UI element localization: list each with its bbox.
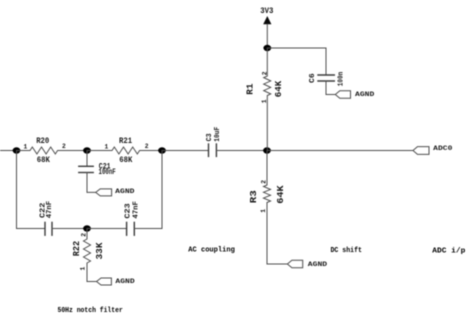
svg-text:AC coupling: AC coupling xyxy=(188,246,235,254)
node junction R20/R21/C21 xyxy=(83,147,91,153)
capacitor C23 xyxy=(127,222,135,235)
svg-text:C23: C23 xyxy=(124,203,132,219)
node junction center xyxy=(263,147,271,153)
svg-text:68K: 68K xyxy=(119,156,132,165)
node junction R1/C6 xyxy=(263,45,271,51)
wire node to C23 xyxy=(87,228,127,230)
wire R21 to C3 xyxy=(162,150,209,152)
wire C21 down xyxy=(86,151,88,167)
wire notch right branch up xyxy=(161,151,163,229)
svg-text:3V3: 3V3 xyxy=(260,7,273,16)
svg-text:68K: 68K xyxy=(37,156,50,165)
svg-text:33K: 33K xyxy=(95,242,105,260)
node junction C22/C23/R22 xyxy=(83,225,91,231)
svg-text:2: 2 xyxy=(80,233,87,237)
wire R22 to ground tag xyxy=(87,281,97,283)
svg-text:R22: R22 xyxy=(72,241,82,257)
svg-text:50Hz notch filter: 50Hz notch filter xyxy=(58,307,123,315)
wire to C22 xyxy=(17,228,46,230)
node junction main left xyxy=(13,147,21,153)
ground tag AGND (R22) xyxy=(97,278,112,285)
svg-text:64K: 64K xyxy=(276,185,286,204)
svg-text:1: 1 xyxy=(260,209,267,213)
wire C6 to ground tag xyxy=(326,81,335,95)
wire C21 to ground tag xyxy=(87,173,96,193)
svg-text:ADC i/p: ADC i/p xyxy=(432,247,466,255)
svg-text:1: 1 xyxy=(24,144,28,151)
svg-text:R20: R20 xyxy=(36,137,49,146)
resistor R22 xyxy=(84,229,91,282)
svg-text:1: 1 xyxy=(261,99,268,103)
wire C3 to center node xyxy=(216,150,267,152)
svg-text:C6: C6 xyxy=(309,73,317,83)
node junction R21/C3/notch right xyxy=(158,147,166,153)
wire main input stub xyxy=(0,150,17,152)
svg-text:64K: 64K xyxy=(274,80,284,97)
svg-text:R21: R21 xyxy=(119,137,132,146)
wire C23 to right branch xyxy=(134,228,162,230)
svg-text:DC shift: DC shift xyxy=(331,247,363,255)
resistor R21 xyxy=(87,147,162,154)
svg-text:R1: R1 xyxy=(246,83,256,95)
capacitor C21 xyxy=(79,166,93,172)
resistor R3 xyxy=(264,151,271,265)
ground tag AGND (R3) xyxy=(287,260,302,267)
wire node to C6 branch xyxy=(267,47,326,49)
resistor R1 xyxy=(264,48,271,151)
capacitor C3 xyxy=(209,144,217,156)
wire R3 to ground tag xyxy=(267,263,287,265)
wire C6 branch down xyxy=(325,48,327,75)
wire 3V3 to node xyxy=(266,24,268,48)
svg-text:AGND: AGND xyxy=(308,261,327,269)
svg-text:R3: R3 xyxy=(249,190,259,203)
ground tag AGND (C6) xyxy=(335,91,350,98)
svg-text:47nF: 47nF xyxy=(46,200,54,218)
ground tag AGND (C21) xyxy=(96,189,112,196)
svg-text:ADC0: ADC0 xyxy=(433,145,452,153)
svg-text:100n: 100n xyxy=(337,71,345,86)
net tag ADC0 xyxy=(413,147,429,155)
svg-text:2: 2 xyxy=(261,180,268,184)
svg-text:AGND: AGND xyxy=(115,188,134,196)
svg-text:AGND: AGND xyxy=(115,278,134,286)
wire C22 to R22 node xyxy=(52,228,87,230)
svg-text:100nF: 100nF xyxy=(99,168,116,177)
svg-text:2: 2 xyxy=(261,71,268,75)
svg-text:1: 1 xyxy=(80,267,87,271)
svg-text:10uF: 10uF xyxy=(214,126,222,141)
capacitor C22 xyxy=(45,222,52,235)
wire notch left branch down xyxy=(16,151,18,229)
svg-text:AGND: AGND xyxy=(355,91,374,99)
power symbol 3V3 arrow xyxy=(263,16,271,24)
resistor R20 xyxy=(17,147,88,154)
svg-text:2: 2 xyxy=(62,143,66,150)
svg-text:47nF: 47nF xyxy=(132,201,140,219)
svg-text:2: 2 xyxy=(145,143,149,150)
wire center node to ADC0 tag xyxy=(267,150,413,152)
svg-text:C3: C3 xyxy=(206,133,214,141)
capacitor C6 xyxy=(318,75,334,81)
svg-text:1: 1 xyxy=(105,144,109,151)
